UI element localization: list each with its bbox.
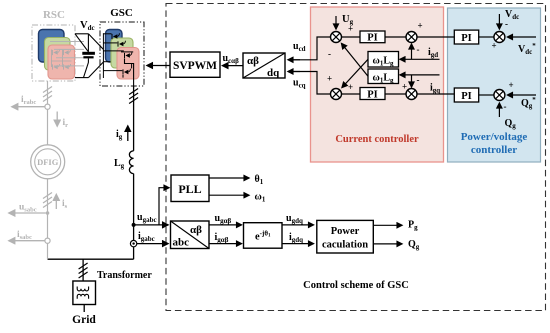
wire dq block to SVPWM [223, 65, 244, 67]
cross coupling wire d to q [342, 59, 368, 87]
svg-text:controller: controller [471, 144, 517, 156]
GSC transistor S1 [112, 33, 119, 39]
Lg inductor [129, 151, 133, 174]
RSC box [32, 25, 75, 81]
w1Lg block q [368, 69, 399, 84]
svg-text:abc: abc [173, 237, 190, 249]
transformer symbol [73, 281, 96, 305]
svg-text:Control scheme of GSC: Control scheme of GSC [303, 280, 409, 291]
Qg output wire [373, 243, 402, 245]
ugabc node [132, 223, 136, 227]
igabc wire [137, 243, 168, 245]
is arrow (faded) [55, 195, 57, 210]
GSC bridge phase b (green) [111, 38, 133, 68]
DFIG machine (faded) [31, 145, 65, 179]
svg-text:SVPWM: SVPWM [173, 60, 217, 72]
GSC box [100, 22, 144, 86]
igd feedback arrow [411, 44, 413, 59]
summing node Qg [494, 90, 505, 101]
breaker below DFIG (faded) [43, 193, 52, 208]
svg-text:-: - [504, 102, 507, 112]
igdq wire [282, 243, 314, 245]
svg-text:PI: PI [367, 33, 378, 44]
irabc wire (faded) [12, 106, 45, 108]
isabc sensor node (faded) [45, 238, 50, 243]
ir arrow (faded) [56, 112, 58, 127]
svg-text:+: + [348, 82, 353, 92]
svg-text:Power/voltage: Power/voltage [461, 131, 528, 143]
usabc wire (faded) [9, 212, 46, 214]
wire blue PI to igd sum [417, 36, 454, 38]
bottom grid bus wire [48, 258, 134, 260]
current controller shaded region [311, 7, 444, 162]
wire sum to PI q [385, 93, 406, 95]
igq feedback arrow [411, 75, 413, 87]
svg-text:+: + [402, 82, 407, 92]
svg-text:RSC: RSC [43, 9, 65, 21]
isabc wire (faded) [9, 240, 45, 242]
Qg ref wire [508, 94, 537, 96]
svg-text:Power: Power [331, 226, 360, 237]
GSC transistor S4 [123, 69, 130, 75]
igd wire [400, 58, 440, 60]
RSC transistors (faded) [52, 50, 72, 70]
svg-text:caculation: caculation [322, 240, 368, 251]
svg-text:+: + [348, 24, 353, 34]
svg-text:PI: PI [367, 90, 378, 101]
stator wire below DFIG [47, 179, 49, 259]
theta1 output wire [209, 177, 249, 179]
wire to PLL [159, 188, 169, 225]
wire blue PI to igq sum [417, 93, 454, 95]
Pg output wire [373, 224, 402, 226]
svg-text:+: + [327, 74, 332, 84]
rotor wire below RSC [47, 81, 49, 145]
Vdc measured arrow [498, 14, 500, 29]
irabc sensor node (faded) [45, 104, 50, 109]
wire sum to PI dc [479, 36, 494, 38]
GSC bridge phase c (pink) [117, 48, 139, 80]
RSC bridge phase a (blue) [39, 30, 65, 63]
dc-link capacitor [82, 52, 95, 55]
summing node ucq [331, 89, 342, 100]
PI reactive power block [454, 88, 478, 102]
svg-text:Current controller: Current controller [335, 134, 419, 145]
svg-text:GSC: GSC [110, 7, 133, 19]
control scheme outer dashed box [166, 4, 546, 311]
igab wire [209, 243, 242, 245]
PI current d block [360, 31, 385, 43]
svg-text:PI: PI [461, 33, 472, 44]
PI dc voltage block [454, 30, 478, 44]
w1Lg block d [368, 52, 399, 68]
PI current q block [360, 88, 385, 100]
ig arrow [127, 126, 129, 141]
svg-text:αβ: αβ [190, 224, 202, 236]
summing node igq [406, 89, 417, 100]
Vdc ref wire [508, 36, 537, 38]
RSC bridge phase c (pink) [48, 45, 75, 79]
summing node Vdc [494, 32, 505, 43]
cross coupling wire q to d [342, 44, 369, 77]
GSC phase wires [121, 51, 133, 53]
GSC dc feed wires [103, 33, 123, 78]
svg-text:PLL: PLL [178, 182, 201, 196]
GSC transistor S2 [118, 41, 125, 47]
omega1 output wire [209, 194, 249, 196]
breaker below RSC (faded) [43, 87, 52, 102]
svg-text:+: + [492, 41, 497, 51]
breaker at transformer [79, 263, 88, 278]
rotation transform block [244, 223, 283, 249]
ucd wire [288, 37, 336, 60]
wire PI to sum ucq [342, 93, 361, 95]
GSC bridge phase a (blue) [106, 30, 123, 63]
PLL block [171, 175, 209, 202]
wire SVPWM to GSC [147, 65, 170, 67]
svg-text:dq: dq [267, 67, 280, 79]
ugab wire [209, 224, 242, 226]
breaker below GSC [129, 89, 138, 104]
RSC bridge phase b (green) [45, 38, 71, 71]
svg-text:-: - [328, 49, 331, 59]
power/voltage controller shaded region [448, 8, 541, 162]
GSC transistor S3 [125, 52, 132, 58]
svg-text:+: + [418, 21, 423, 31]
wire Lg to grid junction [133, 174, 135, 260]
summing node ucd [331, 32, 342, 43]
Ug input arrow [335, 16, 337, 29]
dc bus wires to RSC (faded) [50, 42, 84, 66]
ab/dq transform block [243, 53, 285, 78]
svg-text:PI: PI [461, 91, 472, 102]
Qg measured arrow [498, 103, 500, 117]
grid-side series line [133, 86, 135, 151]
svg-text:DFIG: DFIG [37, 157, 59, 167]
wire sum2 to PI [385, 36, 406, 38]
wire sum to PI Q [479, 94, 494, 96]
summing node igd [406, 32, 417, 43]
ugabc wire [134, 224, 168, 226]
igabc sensor node [130, 240, 136, 246]
svg-text:Grid: Grid [72, 314, 96, 326]
usabc node (faded) [46, 211, 50, 215]
svg-text:-: - [417, 75, 420, 85]
ugdq wire [282, 224, 314, 226]
SVPWM block [170, 52, 220, 77]
power calculation block [317, 220, 374, 253]
stator circuit (faded) [47, 81, 49, 259]
transformer branch wire [82, 259, 84, 281]
svg-text:-: - [417, 45, 420, 55]
wire to grid [83, 305, 85, 313]
svg-text:αβ: αβ [247, 55, 259, 67]
svg-text:-: - [505, 19, 508, 29]
abc/ab transform block [171, 221, 210, 249]
dc bus wires at capacitor [75, 34, 103, 78]
svg-text:Transformer: Transformer [97, 270, 152, 281]
igq wire [400, 74, 440, 76]
ucq wire [288, 72, 336, 95]
svg-text:+: + [509, 80, 514, 90]
wire sum to PI [342, 36, 361, 38]
